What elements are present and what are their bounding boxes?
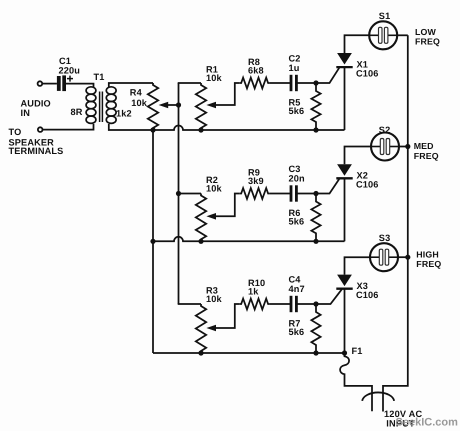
node: R4 wiper joins signal bus bbox=[176, 102, 181, 107]
svg-text:TO: TO bbox=[9, 127, 22, 137]
node: rail at channel-2 bottom bbox=[150, 239, 155, 244]
potentiometer R1 bbox=[196, 83, 206, 130]
label MED FREQ bbox=[414, 141, 439, 161]
wire: X1 cathode to bottom rail bbox=[344, 67, 346, 130]
wire: gate of X2 bbox=[316, 179, 339, 194]
wiper arrow of R4 bbox=[159, 102, 179, 109]
wire: C2 to gate node bbox=[296, 82, 316, 84]
potentiometer R2 bbox=[196, 194, 206, 242]
resistor R9 bbox=[240, 188, 270, 199]
node: R3 bottom junction bbox=[198, 350, 203, 355]
lamp S1 bbox=[369, 21, 397, 49]
wire: T1 secondary bottom to R4 bottom bbox=[109, 124, 153, 130]
wire: audio bottom terminal to T1 primary bottom bbox=[43, 124, 94, 130]
svg-text:FREQ: FREQ bbox=[414, 151, 439, 161]
resistor R7 bbox=[311, 304, 320, 353]
svg-text:5k6: 5k6 bbox=[289, 217, 305, 227]
label TO SPEAKER TERMINALS bbox=[9, 127, 64, 156]
svg-text:4n7: 4n7 bbox=[289, 284, 305, 294]
node: bus to R2 junction bbox=[176, 191, 181, 196]
wire: lamp S1 to right bus bbox=[397, 34, 408, 36]
fuse F1 bbox=[340, 353, 372, 411]
svg-text:C106: C106 bbox=[356, 68, 379, 78]
svg-text:S1: S1 bbox=[379, 11, 391, 21]
svg-text:T1: T1 bbox=[94, 72, 105, 82]
wire: C4 to gate node bbox=[296, 303, 316, 305]
wire: bus corner to R3 top bbox=[178, 303, 201, 305]
resistor R8 bbox=[240, 78, 270, 89]
node: S2 right terminal on bus bbox=[405, 144, 410, 149]
svg-text:IN: IN bbox=[21, 108, 31, 118]
svg-text:F1: F1 bbox=[352, 346, 363, 356]
wire: X3 cathode to bottom rail bbox=[344, 289, 346, 353]
node: gate node of X2 bbox=[313, 191, 318, 196]
label LOW FREQ bbox=[415, 27, 440, 47]
wire: bus to R1 top bbox=[178, 82, 201, 84]
svg-text:10k: 10k bbox=[206, 294, 223, 304]
thyristor X1 (C106) bbox=[336, 53, 352, 67]
wire: lamp S3 to right bus bbox=[398, 256, 408, 258]
svg-text:10k: 10k bbox=[206, 184, 223, 194]
wire: C1 to T1 primary top bbox=[66, 84, 94, 88]
svg-text:MED: MED bbox=[414, 141, 434, 151]
potentiometer R3 bbox=[196, 304, 206, 353]
node: fuse junction bbox=[342, 350, 347, 355]
transformer T1 secondary winding bbox=[106, 87, 116, 124]
wire: T1 secondary top to R4 top bbox=[109, 83, 153, 88]
wire: signal bus vertical (R4 wiper feed) bbox=[178, 83, 180, 304]
svg-text:1u: 1u bbox=[289, 63, 300, 73]
node: R1 bottom junction bbox=[198, 127, 203, 132]
svg-text:C106: C106 bbox=[356, 290, 379, 300]
potentiometer R4 bbox=[148, 83, 158, 130]
AC plug symbol bbox=[362, 392, 394, 400]
wire: left common rail (R4 bottom down to channel 3) bbox=[152, 130, 154, 353]
svg-text:S3: S3 bbox=[379, 233, 391, 243]
svg-text:C106: C106 bbox=[356, 180, 379, 190]
wire: C3 to gate node bbox=[296, 193, 316, 195]
capacitor C1 (electrolytic) bbox=[57, 75, 66, 91]
wire: gate of X3 bbox=[316, 289, 342, 304]
svg-text:AUDIO: AUDIO bbox=[21, 99, 51, 109]
wire: channel-3 bottom rail bbox=[153, 352, 345, 354]
resistor R6 bbox=[311, 194, 320, 242]
wire: X3 anode to lamp S3 bbox=[345, 257, 371, 274]
svg-text:8R: 8R bbox=[71, 107, 83, 117]
wire: right bus (lamps common to AC) bbox=[383, 35, 408, 411]
capacitor C4 bbox=[290, 296, 298, 312]
wire: audio top terminal to C1 bbox=[42, 83, 57, 85]
transformer T1 primary winding bbox=[86, 87, 96, 124]
svg-text:10k: 10k bbox=[206, 73, 223, 83]
node: gate node of X1 bbox=[313, 80, 318, 85]
svg-text:1k2: 1k2 bbox=[116, 108, 132, 118]
terminal: AUDIO IN top bbox=[38, 81, 43, 86]
label AUDIO IN bbox=[21, 99, 51, 119]
wiper arrow of R1 bbox=[206, 83, 239, 108]
wire: gate of X1 bbox=[316, 68, 339, 83]
svg-text:FREQ: FREQ bbox=[416, 259, 441, 269]
svg-text:S2: S2 bbox=[379, 125, 391, 135]
node: S3 right terminal on bus bbox=[405, 255, 410, 260]
label HIGH FREQ bbox=[416, 249, 441, 268]
svg-text:LOW: LOW bbox=[415, 27, 437, 37]
node: R2 bottom junction bbox=[198, 239, 203, 244]
resistor R10 bbox=[240, 299, 270, 310]
lamp S2 bbox=[371, 133, 399, 161]
node: R7 bottom junction bbox=[313, 350, 318, 355]
polarity + of C1 bbox=[67, 76, 73, 82]
wire: X2 cathode to bottom rail bbox=[344, 178, 346, 241]
svg-text:220u: 220u bbox=[59, 65, 81, 75]
wire: bus to R2 top bbox=[179, 193, 202, 195]
svg-text:SeekIC.com: SeekIC.com bbox=[396, 417, 459, 429]
svg-text:5k6: 5k6 bbox=[289, 327, 305, 337]
svg-text:5k6: 5k6 bbox=[289, 106, 305, 116]
svg-text:TERMINALS: TERMINALS bbox=[9, 146, 64, 156]
svg-text:20n: 20n bbox=[289, 174, 306, 184]
svg-text:3k9: 3k9 bbox=[248, 176, 264, 186]
node: rail at channel-1 bottom bbox=[150, 127, 155, 132]
terminal: TO SPEAKER bottom bbox=[38, 127, 43, 132]
wire: lamp S2 to right bus bbox=[399, 146, 408, 148]
wiper arrow of R3 bbox=[206, 304, 239, 331]
wire: X2 anode to lamp S2 bbox=[345, 147, 372, 165]
wiper arrow of R2 bbox=[206, 194, 239, 220]
thyristor X3 (C106) bbox=[336, 275, 352, 289]
thyristor X2 (C106) bbox=[336, 164, 352, 178]
transformer T1 core bbox=[100, 92, 103, 123]
wire: R10 to C4 bbox=[270, 303, 291, 305]
svg-text:R4: R4 bbox=[130, 87, 143, 97]
node: R6 bottom junction bbox=[313, 239, 318, 244]
capacitor C2 bbox=[290, 75, 298, 91]
wire: channel-2 bottom rail (hop over bus) bbox=[153, 237, 345, 242]
node: R5 bottom junction bbox=[313, 127, 318, 132]
node: gate node of X3 bbox=[313, 301, 318, 306]
svg-text:6k8: 6k8 bbox=[248, 66, 264, 76]
wire: R9 to C3 bbox=[270, 193, 291, 195]
resistor R5 bbox=[311, 83, 320, 130]
wire: channel-1 bottom rail (hop over bus) bbox=[153, 126, 345, 131]
svg-text:1k: 1k bbox=[248, 287, 259, 297]
svg-text:10k: 10k bbox=[131, 98, 148, 108]
capacitor C3 bbox=[290, 185, 298, 201]
lamp S3 bbox=[370, 243, 398, 271]
wire: R8 to C2 bbox=[270, 82, 291, 84]
svg-text:FREQ: FREQ bbox=[415, 36, 440, 46]
wire: X1 anode to lamp S1 bbox=[345, 35, 370, 53]
